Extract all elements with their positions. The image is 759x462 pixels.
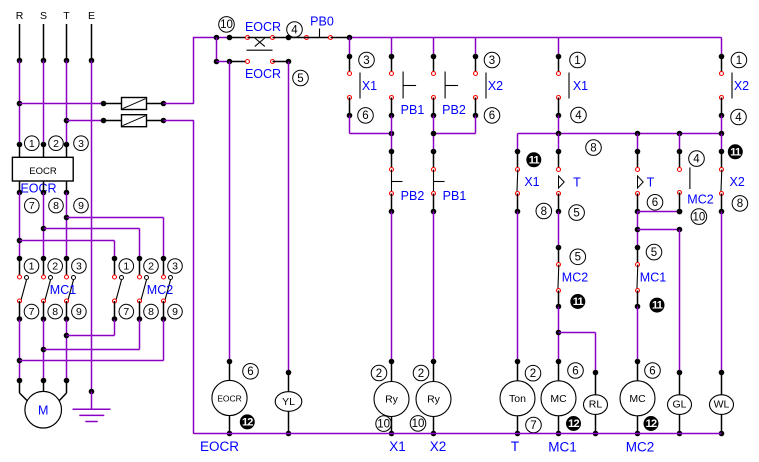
svg-text:6: 6: [652, 197, 658, 209]
svg-text:3: 3: [363, 55, 369, 67]
svg-text:T: T: [573, 176, 581, 190]
node 4 X1 relay: [571, 107, 587, 123]
svg-text:X2: X2: [430, 439, 447, 454]
contactor MC2 pole3: [161, 256, 167, 262]
svg-text:2: 2: [53, 138, 59, 150]
svg-text:9: 9: [172, 306, 178, 318]
wire T incoming: [66, 24, 68, 61]
svg-text:1: 1: [574, 55, 580, 67]
node 11 MC2 NC: [570, 294, 585, 309]
node 6 X1 hold: [358, 108, 374, 124]
node 4: [287, 22, 303, 38]
svg-text:EOCR: EOCR: [245, 20, 281, 34]
node 3 X2 hold: [484, 52, 500, 68]
wire PB1 branch to Ry X1 coil: [391, 212, 393, 362]
pin 1: [25, 136, 40, 151]
lamp RL: [595, 373, 597, 395]
contactor MC1 pole3: [64, 256, 70, 262]
contactor MC2 pole2: [137, 256, 143, 262]
coil EOCR: [229, 362, 231, 381]
svg-text:EOCR: EOCR: [217, 393, 242, 403]
node 3 X1 hold: [359, 52, 375, 68]
svg-text:T: T: [511, 439, 519, 454]
wire X1 hold to PB1 branch: [349, 116, 351, 134]
svg-text:PB2: PB2: [401, 189, 425, 203]
lamp GL: [679, 373, 681, 395]
svg-text:X1: X1: [573, 79, 588, 93]
wire MC2 pole1 crossover: [114, 320, 116, 336]
wire MC1 pole2 to motor: [43, 320, 45, 381]
node 4 MC2 aux: [689, 151, 705, 167]
svg-text:6: 6: [247, 366, 253, 378]
coil MC2: [637, 362, 639, 381]
wire E incoming: [91, 24, 93, 61]
svg-text:R: R: [16, 10, 24, 22]
svg-text:7: 7: [29, 306, 35, 318]
svg-text:10: 10: [220, 19, 233, 31]
node 12 MC2 coil: [644, 416, 659, 431]
svg-text:4: 4: [693, 153, 700, 165]
wire T phase to EOCR: [66, 61, 68, 145]
wire rail2: [518, 133, 722, 135]
wire X2 hold branch top: [475, 38, 477, 57]
svg-text:11: 11: [652, 300, 663, 312]
svg-text:5: 5: [651, 247, 657, 259]
wire MC2 aux branch: [679, 134, 681, 152]
svg-text:MC: MC: [550, 393, 567, 405]
wire S to MC1 pole2: [43, 193, 45, 259]
contact MC2 aux: [677, 149, 683, 155]
svg-text:M: M: [38, 404, 48, 418]
pin 2: [49, 136, 64, 151]
wire T to MC1 pole3: [66, 193, 68, 259]
wire top rail right of PB0: [350, 37, 722, 39]
wire GL column: [679, 230, 681, 373]
svg-text:12: 12: [242, 417, 253, 429]
node 10 Ry X2: [410, 416, 426, 432]
wire PB2 to PB1 NC: [433, 116, 435, 152]
node 11 X1 aux: [526, 152, 541, 167]
svg-text:PB0: PB0: [310, 15, 334, 29]
svg-text:11: 11: [529, 154, 540, 166]
wire S to MC2 pole2: [44, 228, 140, 230]
wire R phase to EOCR: [19, 61, 21, 145]
contact X1 aux: [515, 149, 521, 155]
svg-text:X2: X2: [730, 175, 745, 189]
svg-text:5: 5: [297, 73, 303, 85]
MC1 pole pins 1 2 3: [24, 259, 39, 274]
svg-text:2: 2: [530, 368, 536, 380]
svg-text:T: T: [647, 176, 655, 190]
svg-text:8: 8: [737, 198, 743, 210]
svg-text:EOCR: EOCR: [200, 439, 239, 454]
motor M leads: [19, 381, 21, 394]
contactor MC1 pole2: [41, 256, 47, 262]
node 8 X2 aux: [732, 196, 748, 212]
svg-text:PB2: PB2: [442, 103, 466, 117]
motor M: [25, 391, 62, 428]
contact X2 hold: [473, 54, 479, 60]
coil Ry X1: [391, 362, 393, 382]
node 2 Ry X2: [413, 365, 429, 381]
fuse F1: [104, 103, 122, 105]
svg-text:5: 5: [575, 252, 581, 264]
wire R incoming: [19, 24, 21, 61]
fuse F2: [104, 120, 122, 122]
svg-text:3: 3: [172, 261, 178, 273]
svg-text:6: 6: [572, 365, 578, 377]
svg-text:GL: GL: [672, 399, 686, 411]
svg-text:PB1: PB1: [401, 103, 425, 117]
wire YL column: [288, 62, 290, 373]
svg-text:X1: X1: [524, 175, 539, 189]
coil MC1: [558, 362, 560, 381]
svg-text:PB1: PB1: [443, 189, 467, 203]
pushbutton PB0: [305, 36, 309, 40]
wire bottom bus: [194, 433, 722, 435]
contactor MC1 pole1: [17, 256, 23, 262]
svg-text:10: 10: [412, 418, 425, 430]
svg-text:10: 10: [377, 418, 390, 430]
svg-text:6: 6: [362, 110, 368, 122]
svg-text:X2: X2: [488, 79, 503, 93]
wire MC1 rung top: [558, 134, 560, 152]
svg-text:12: 12: [568, 418, 579, 430]
svg-text:EOCR: EOCR: [20, 182, 56, 196]
svg-text:3: 3: [76, 261, 82, 273]
svg-text:7: 7: [123, 306, 129, 318]
contact MC1 NC interlock: [635, 245, 641, 251]
wire S incoming: [43, 24, 45, 61]
pushbutton PB2 NC: [389, 149, 395, 155]
svg-text:Ton: Ton: [509, 393, 526, 405]
svg-text:4: 4: [575, 110, 582, 122]
contact MC2 NC interlock: [556, 245, 562, 251]
svg-text:X1: X1: [389, 439, 406, 454]
svg-text:8: 8: [590, 142, 596, 154]
node 10 Ry X1: [376, 416, 392, 432]
wire R to MC1 pole1: [19, 193, 21, 259]
wire E phase down: [91, 61, 93, 392]
node 5 MC1 rung: [569, 205, 585, 221]
wire MC1 pole1 to motor: [19, 320, 21, 381]
coil Ry X2: [433, 362, 435, 382]
wire X1 relay branch top: [558, 38, 560, 57]
svg-text:Ry: Ry: [385, 394, 399, 406]
svg-text:T: T: [63, 10, 70, 22]
wire fuse2 to bottom bus: [164, 120, 194, 122]
wire R to MC2 pole1: [20, 240, 115, 242]
wire MC2 pole2 crossover: [139, 320, 141, 350]
svg-text:1: 1: [736, 55, 742, 67]
ground: [89, 389, 95, 395]
contact X1 relay: [556, 54, 562, 60]
svg-text:12: 12: [646, 418, 657, 430]
node 1 X1 relay: [570, 52, 586, 68]
pushbutton PB2: [431, 54, 437, 60]
wire PB2 branch to Ry X2 coil: [433, 212, 435, 362]
wire PB1 branch top: [391, 38, 393, 57]
svg-text:11: 11: [730, 146, 741, 158]
wire fuse2 feed: [67, 120, 104, 122]
wire MC2 rung top: [637, 134, 639, 152]
svg-text:7: 7: [29, 200, 35, 212]
svg-text:1: 1: [29, 261, 35, 273]
svg-text:RL: RL: [589, 399, 603, 411]
svg-text:8: 8: [148, 306, 154, 318]
svg-text:Ry: Ry: [427, 394, 441, 406]
svg-text:1: 1: [29, 138, 35, 150]
coil Ton: [517, 362, 519, 381]
EOCR block terminals 7 8 9: [19, 181, 21, 193]
EOCR NO contact: [216, 38, 218, 62]
svg-text:2: 2: [52, 261, 58, 273]
contactor MC2 pole1: [112, 256, 118, 262]
svg-text:MC1: MC1: [640, 271, 666, 285]
node 1 X2 relay: [731, 52, 747, 68]
wire MC2 rung middle: [637, 212, 639, 248]
svg-text:4: 4: [291, 24, 298, 36]
node 11 X2 aux: [728, 144, 743, 159]
svg-text:MC2: MC2: [147, 283, 173, 297]
node 6 MC2 coil: [645, 363, 661, 379]
wire fuse1 feed: [20, 103, 104, 105]
svg-text:2: 2: [148, 261, 154, 273]
wire X1 hold branch top: [349, 38, 351, 57]
wire X1 relay to rail2: [558, 116, 560, 134]
svg-text:9: 9: [76, 306, 82, 318]
pin 9: [74, 198, 89, 213]
wire MC1 pole3 to motor: [66, 320, 68, 381]
node 4 X2 relay: [731, 109, 747, 125]
wire MC1 NC to MC2 coil: [637, 307, 639, 362]
EOCR block terminals 1 2 3: [17, 142, 23, 148]
EOCR NC contact: [214, 35, 220, 41]
pin 7: [25, 198, 40, 213]
svg-text:E: E: [88, 10, 95, 22]
MC2 pole pins 1 2 3: [119, 259, 134, 274]
wire X2 relay branch top: [721, 38, 723, 57]
timer contact T for MC2: [635, 149, 641, 155]
svg-text:X2: X2: [734, 79, 749, 93]
wire MC2aux join: [638, 211, 680, 213]
wire PB1 to PB2 NC: [391, 116, 393, 152]
svg-text:8: 8: [53, 200, 59, 212]
wire timer to MC2 NC: [558, 212, 560, 248]
node 6 MC1 coil: [568, 363, 584, 379]
svg-text:1: 1: [123, 261, 129, 273]
node 6 EOCR coil: [243, 364, 259, 380]
node 2 Ton: [525, 365, 541, 381]
svg-text:9: 9: [78, 200, 84, 212]
svg-text:EOCR: EOCR: [29, 166, 57, 177]
wire T to MC2 pole3: [67, 217, 164, 219]
EOCR reset bar: [247, 49, 273, 51]
lamp WL: [721, 373, 723, 395]
node 8 X1 aux: [536, 203, 552, 219]
contact X2 aux: [719, 149, 725, 155]
wire top rail: [194, 37, 230, 39]
wire fuse1 to left rail: [164, 103, 194, 105]
node 5: [293, 70, 309, 86]
svg-text:EOCR: EOCR: [245, 67, 281, 81]
svg-text:X1: X1: [362, 79, 377, 93]
pin 3: [74, 136, 89, 151]
wire GL tap: [638, 229, 680, 231]
lamp YL: [288, 373, 290, 392]
svg-text:3: 3: [78, 138, 84, 150]
node 11 MC1 NC: [650, 298, 665, 313]
wire MC2 pole3 crossover: [163, 320, 165, 361]
wire X1 aux branch: [517, 134, 519, 152]
svg-text:7: 7: [530, 420, 536, 432]
svg-text:11: 11: [573, 296, 584, 308]
wire X2 relay to rail2: [721, 116, 723, 134]
svg-text:8: 8: [541, 206, 547, 218]
node 8: [586, 140, 602, 156]
svg-text:MC1: MC1: [50, 283, 76, 297]
EOCR power unit: [12, 157, 73, 181]
svg-text:5: 5: [573, 207, 579, 219]
wire X2 aux to WL: [721, 212, 723, 373]
pin 8: [49, 198, 64, 213]
wire S phase to EOCR: [43, 61, 45, 145]
node 12 EOCR coil: [240, 414, 255, 429]
svg-text:3: 3: [489, 55, 495, 67]
node 2 Ry X1: [371, 365, 387, 381]
node 6 X2 hold: [484, 108, 500, 124]
wire X2 aux branch: [721, 134, 723, 152]
svg-text:4: 4: [735, 112, 742, 124]
svg-text:2: 2: [418, 368, 424, 380]
svg-text:8: 8: [52, 306, 58, 318]
node 5 MC1 NC: [646, 244, 662, 260]
contact X1 hold: [347, 54, 353, 60]
svg-text:S: S: [40, 10, 47, 22]
node 12 MC1 coil: [566, 416, 581, 431]
node 6 MC2 rung: [647, 195, 663, 211]
svg-text:WL: WL: [714, 399, 730, 411]
node 5 MC2 NC: [570, 249, 586, 265]
svg-text:2: 2: [376, 368, 382, 380]
node 7 Ton: [526, 417, 542, 433]
svg-text:YL: YL: [282, 396, 295, 408]
svg-text:MC: MC: [629, 393, 646, 405]
node 10 MC2 aux: [691, 209, 707, 225]
svg-text:MC2: MC2: [626, 440, 655, 455]
wire PB2 branch top: [433, 38, 435, 57]
MC1 pole pins 7 8 9: [24, 304, 39, 319]
svg-text:MC1: MC1: [548, 440, 577, 455]
MC2 pole pins 7 8 9: [119, 304, 134, 319]
pushbutton PB1: [389, 54, 395, 60]
svg-text:MC2: MC2: [562, 271, 588, 285]
wire X2 hold to PB2 branch: [475, 116, 477, 134]
svg-text:6: 6: [649, 365, 655, 377]
svg-text:10: 10: [693, 211, 706, 223]
timer contact T for MC1: [556, 149, 562, 155]
node 10: [219, 17, 235, 33]
wire EOCR coil column: [229, 62, 231, 362]
pushbutton PB1 NC: [431, 149, 437, 155]
wire MC2 NC to MC1 coil: [558, 307, 560, 362]
contact X2 relay: [719, 54, 725, 60]
svg-text:MC2: MC2: [687, 193, 713, 207]
wire X1 aux to Ton coil: [517, 212, 519, 362]
svg-text:6: 6: [489, 110, 495, 122]
wire RL tap: [559, 332, 596, 334]
